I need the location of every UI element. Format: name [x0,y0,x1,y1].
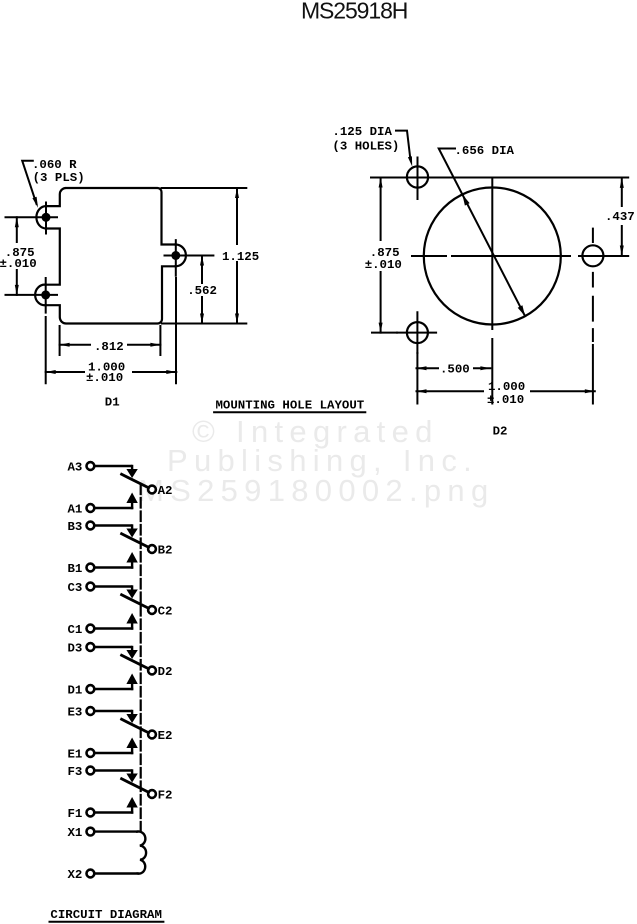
svg-text:X2: X2 [68,868,83,882]
D2 big circle [424,188,561,325]
contact arrow D3 (down) [131,647,133,651]
D1 tab arc bottom-left [35,285,46,306]
terminal B1 [87,564,95,572]
terminal C1 [87,625,95,633]
svg-text:.125 DIA: .125 DIA [332,125,392,139]
terminal A2 [148,486,156,494]
terminal E2 [148,731,156,739]
D1 dim 1.125 line [236,188,238,324]
D1 dim .812 extension lines [60,326,161,355]
svg-text:MOUNTING HOLE LAYOUT: MOUNTING HOLE LAYOUT [216,399,365,413]
terminal X2 [87,870,95,878]
terminal D2 [148,667,156,675]
contact arrow C1 (up) [126,613,137,624]
terminal A3 [87,462,95,470]
D2 dim extension left below hole [416,353,418,404]
D2 dim .437 line [621,178,623,256]
svg-text:±.010: ±.010 [487,393,524,407]
switch blade B [122,534,149,548]
terminal D3 [87,643,95,651]
switch blade E [122,719,149,733]
wire X1 [95,830,138,832]
D2 top extension line [371,177,628,179]
contact arrow C3 (down) [131,587,133,591]
D2 hole top-left [407,166,428,187]
svg-text:.060 R: .060 R [32,158,77,172]
terminal F1 [87,809,95,817]
svg-text:A1: A1 [68,503,83,517]
mechanical linkage dashed line [140,485,142,833]
svg-text:B1: B1 [68,562,83,576]
contact arrow F1 (up) [126,797,137,808]
switch blade C [122,595,149,609]
wire F3 [95,769,132,771]
wire D1 [95,688,133,690]
D2 hole bottom-left [407,322,428,343]
svg-text:MS25918H: MS25918H [301,0,407,23]
D1 dim .812 line [60,344,161,346]
svg-text:±.010: ±.010 [0,257,37,271]
D1 hole right crosshair [165,240,214,276]
contact arrow D1 (up) [126,674,137,685]
contact arrow A1 (up) [126,493,137,504]
svg-text:E2: E2 [158,729,173,743]
D1 dim 1.125 extension lines [162,188,247,324]
svg-text:C2: C2 [158,605,173,619]
D2 dim .875 line [380,178,382,333]
terminal C3 [87,583,95,591]
terminal E3 [87,707,95,715]
svg-text:D1: D1 [105,396,120,410]
svg-text:.500: .500 [440,362,470,376]
wire A1 [95,507,133,509]
svg-text:X1: X1 [68,826,83,840]
terminal D1 [87,685,95,693]
wire E1 [95,752,133,754]
D2 vertical centerline [491,178,493,404]
svg-text:F3: F3 [68,765,83,779]
svg-text:1.000: 1.000 [488,380,525,394]
svg-text:.562: .562 [187,284,217,298]
D2 extension .875 bottom [372,332,397,334]
svg-text:1.125: 1.125 [222,250,259,264]
D1 hole bottom-left [41,290,50,299]
wire E3 [95,710,132,712]
wire F1 [95,811,133,813]
terminal B3 [87,522,95,530]
switch blade A [122,474,149,488]
wire C1 [95,627,133,629]
D2 hole right [582,245,603,266]
wire B1 [95,566,133,568]
D1 hole bottom-left crosshair [6,278,58,313]
svg-text:MS259180002.png: MS259180002.png [138,473,495,508]
contact arrow E3 (down) [131,711,133,715]
contact arrow F3 (down) [131,771,133,775]
svg-text:D2: D2 [493,425,508,439]
D1 dim 1.000 extension lines [46,278,176,383]
D1 tab arc top-left [36,206,46,228]
svg-text:±.010: ±.010 [365,258,402,272]
wire D3 [95,646,132,648]
D2 hole top-left crosshair [417,158,419,200]
wire C3 [95,585,132,587]
terminal X1 [87,828,95,836]
svg-text:.656 DIA: .656 DIA [455,144,515,158]
D2 dim extension right below hole [592,345,594,404]
svg-text:A2: A2 [158,484,173,498]
D1 dim .562 line [201,256,203,324]
D2 hole right centerline [592,229,594,341]
D2 horizontal centerline [412,255,628,257]
switch blade D [122,655,149,669]
svg-text:(3 PLS): (3 PLS) [33,171,85,185]
svg-text:±.010: ±.010 [86,371,123,385]
contact arrow B3 (down) [131,526,133,530]
terminal E1 [87,749,95,757]
D2 leader .125 DIA [396,131,410,159]
D1 tab arc right [176,245,186,267]
svg-text:A3: A3 [68,461,83,475]
svg-text:C3: C3 [68,581,83,595]
svg-text:.437: .437 [605,210,635,224]
wire A3 [95,465,132,467]
svg-text:B2: B2 [158,544,173,558]
D1 hole top-left crosshair [6,203,58,234]
D1 dim .875 line [16,217,18,295]
D2 hole bottom-left crosshair [397,312,436,353]
D1 leader .060 R [22,161,36,204]
svg-text:CIRCUIT DIAGRAM: CIRCUIT DIAGRAM [50,908,162,922]
svg-text:E3: E3 [68,706,83,720]
svg-text:D1: D1 [68,684,83,698]
D1 hole right [171,251,180,260]
svg-text:.812: .812 [94,340,124,354]
svg-text:F2: F2 [158,789,173,803]
D1 body outline [46,188,176,324]
terminal A1 [87,504,95,512]
svg-text:C1: C1 [68,623,83,637]
contact arrow A3 (down) [131,466,133,470]
terminal C2 [148,606,156,614]
wire X2 [95,872,138,874]
svg-text:D2: D2 [158,665,173,679]
terminal F3 [87,767,95,775]
contact arrow E1 (up) [126,738,137,749]
D1 dim 1.000 line [46,371,177,373]
svg-text:D3: D3 [68,642,83,656]
D2 dim 1.000 line [417,390,595,392]
terminal B2 [148,545,156,553]
svg-text:(3 HOLES): (3 HOLES) [332,140,399,154]
D2 dim .500 line [417,367,491,369]
coil X [137,831,146,873]
terminal F2 [148,790,156,798]
svg-text:E1: E1 [68,748,83,762]
wire B3 [95,524,132,526]
svg-text:B3: B3 [68,520,83,534]
D1 hole top-left [42,213,51,222]
svg-text:F1: F1 [68,807,83,821]
switch blade F [122,779,149,793]
contact arrow B1 (up) [126,552,137,563]
D2 diameter line .656 [439,149,525,317]
